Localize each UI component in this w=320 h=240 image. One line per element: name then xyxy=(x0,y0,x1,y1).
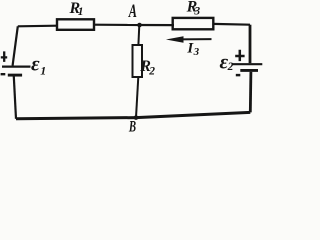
node B junction dot xyxy=(134,115,139,120)
wire R2 to node B xyxy=(136,77,138,118)
svg-text:B: B xyxy=(128,119,136,135)
minus sign E1 xyxy=(1,73,6,75)
wire node A to R3 xyxy=(140,24,175,26)
svg-text:2: 2 xyxy=(227,61,234,73)
svg-text:1: 1 xyxy=(78,6,84,18)
current arrow I3 xyxy=(178,38,212,40)
wire R3 to top-right corner xyxy=(213,23,251,26)
svg-text:3: 3 xyxy=(193,46,200,58)
resistor R1 xyxy=(57,19,94,30)
wire node B to bottom-left corner xyxy=(16,118,136,119)
svg-text:2: 2 xyxy=(148,65,155,77)
svg-text:1: 1 xyxy=(40,63,46,77)
svg-text:3: 3 xyxy=(193,5,200,17)
svg-text:A: A xyxy=(128,1,137,22)
node A junction dot xyxy=(137,23,142,28)
resistor R2 xyxy=(133,45,143,77)
battery E1 xyxy=(2,65,31,67)
wire R1 to node A xyxy=(94,24,140,26)
plus sign E2 xyxy=(235,50,244,61)
plus sign E1 xyxy=(1,51,7,62)
wire battery E2 to bottom-right corner xyxy=(249,72,252,113)
battery E2 xyxy=(232,63,262,65)
wire bottom-left corner to battery E1 xyxy=(14,76,16,118)
wire battery E1 to top-left corner xyxy=(13,26,18,65)
wire right side top to battery E2 xyxy=(249,25,252,64)
svg-text:ε: ε xyxy=(31,52,40,76)
minus sign E2 xyxy=(236,74,241,77)
wire bottom-right to node B xyxy=(136,112,250,117)
wire node A to resistor R2 xyxy=(137,25,140,45)
wire top-left segment xyxy=(18,25,57,28)
resistor R3 xyxy=(173,18,214,29)
